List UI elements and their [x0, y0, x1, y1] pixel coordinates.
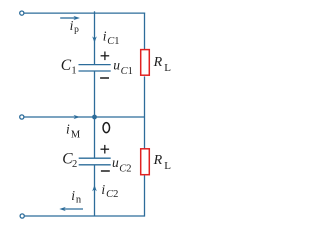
svg-text:M: M	[71, 129, 81, 140]
svg-text:C: C	[61, 57, 72, 74]
wire: center vertical bottom (C2 to bottom wire)	[94, 165, 96, 216]
node O junction dot	[92, 115, 97, 120]
svg-text:1: 1	[71, 65, 76, 76]
svg-text:L: L	[164, 62, 171, 74]
svg-text:2: 2	[126, 163, 131, 174]
terminal: middle-left input	[20, 115, 24, 119]
current arrow line in	[63, 208, 83, 210]
wire: right rail middle segment	[144, 76, 146, 148]
svg-text:n: n	[76, 195, 82, 206]
resistor RL1 body	[141, 50, 150, 76]
wire: right rail upper segment	[144, 13, 146, 50]
arrowhead: in points left	[59, 207, 66, 211]
wire: bottom horizontal	[25, 215, 145, 217]
svg-text:p: p	[74, 25, 79, 35]
label node O	[103, 123, 110, 133]
svg-text:u: u	[113, 58, 120, 73]
wire: center vertical middle (C1 to C2 through node O)	[94, 71, 96, 158]
current arrow line ip	[60, 17, 75, 19]
svg-text:u: u	[112, 155, 119, 170]
svg-text:2: 2	[72, 159, 77, 170]
polarity minus of C1	[100, 77, 109, 79]
polarity plus of C1	[101, 52, 110, 61]
svg-text:2: 2	[113, 189, 118, 200]
terminal: top-left input	[20, 11, 24, 15]
polarity plus of C2	[101, 145, 110, 154]
arrowhead: iM on middle wire points right	[74, 115, 81, 119]
wire: middle horizontal	[24, 116, 144, 118]
capacitor C1 bottom plate	[79, 70, 111, 72]
wire: center vertical top (top wire to C1)	[94, 11, 96, 64]
capacitor C1 top plate	[79, 64, 111, 66]
terminal: bottom-left input	[20, 214, 24, 218]
capacitor C2 top plate	[79, 157, 111, 159]
svg-text:1: 1	[114, 36, 119, 47]
resistor RL2 body	[141, 149, 150, 175]
svg-text:i: i	[71, 188, 75, 203]
svg-text:i: i	[66, 122, 70, 137]
svg-text:i: i	[103, 29, 107, 44]
svg-text:L: L	[164, 160, 171, 172]
svg-text:R: R	[153, 55, 163, 70]
capacitor C2 bottom plate	[79, 164, 111, 166]
svg-text:1: 1	[128, 66, 133, 77]
polarity minus of C2	[101, 170, 110, 172]
arrowhead: iC1 points down	[92, 36, 97, 42]
svg-text:i: i	[101, 182, 105, 197]
svg-text:i: i	[70, 18, 74, 33]
wire: right rail lower segment	[144, 175, 146, 216]
arrowhead: ip points right	[73, 16, 80, 20]
svg-text:R: R	[153, 153, 163, 168]
wire: top horizontal	[24, 12, 145, 14]
arrowhead: iC2 points up	[92, 185, 97, 191]
